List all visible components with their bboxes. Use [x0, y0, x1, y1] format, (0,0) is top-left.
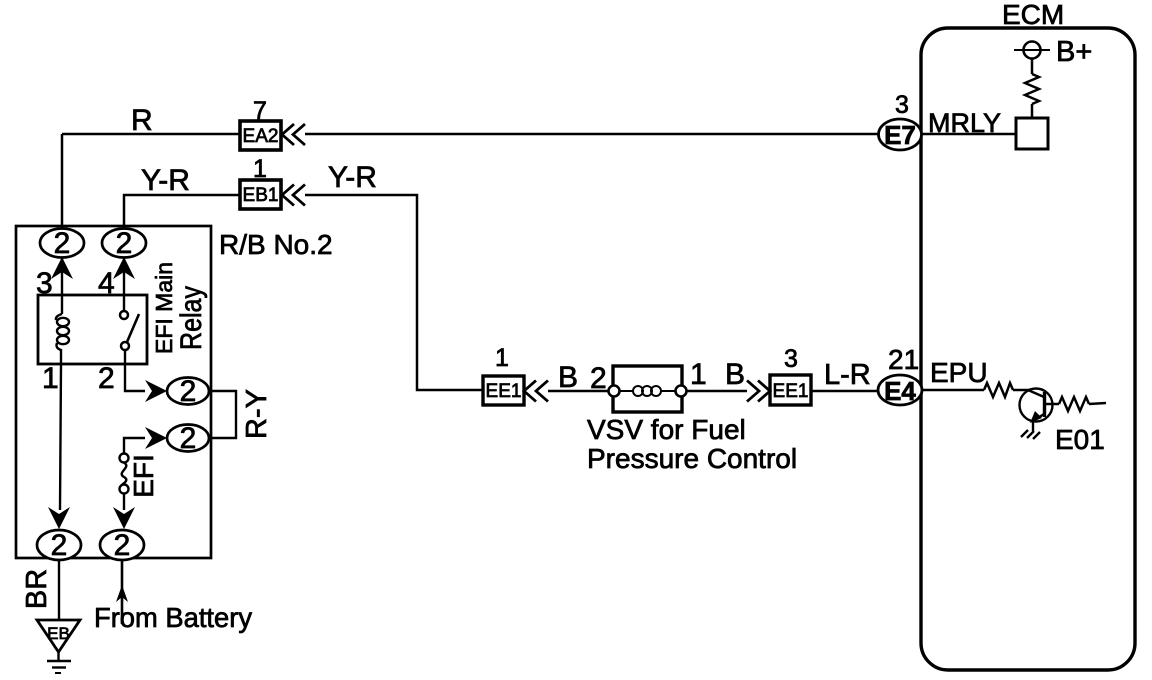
connector pin 4 top (2) [102, 227, 146, 260]
svg-text:2: 2 [590, 362, 607, 395]
ECM box U1 [921, 28, 1135, 670]
connector EE1 pin 3 right [770, 375, 811, 405]
wire coil down [60, 364, 61, 510]
svg-text:Pressure Control: Pressure Control [587, 443, 797, 474]
svg-text:R/B No.2: R/B No.2 [219, 229, 333, 260]
svg-text:E7: E7 [884, 120, 916, 150]
B+ terminal [1014, 42, 1050, 59]
wire R to E7 [305, 133, 879, 136]
relay/fuse block R/B No.2 [16, 226, 211, 558]
wire resistor to coil box [1031, 104, 1034, 118]
svg-text:1: 1 [42, 362, 59, 395]
svg-text:3: 3 [784, 345, 798, 373]
wire to transistor [1013, 389, 1029, 392]
solenoid valve VSV [609, 366, 687, 412]
svg-text:1: 1 [253, 155, 267, 183]
wire B+ to resistor [1031, 59, 1034, 74]
arrow chevrons EE1 left [524, 381, 548, 402]
svg-text:L-R: L-R [824, 359, 871, 391]
connector E bottom (2) [100, 529, 144, 562]
arrow chevrons EA2 [282, 124, 305, 145]
arrow right into A [145, 380, 167, 402]
svg-text:BR: BR [21, 569, 53, 609]
relay coil [56, 295, 69, 364]
resistor R3 [1059, 397, 1089, 411]
wire R left [62, 133, 240, 136]
wire EPU [921, 389, 984, 391]
svg-text:EA2: EA2 [243, 126, 279, 147]
arrow up pin4 [113, 257, 135, 279]
svg-text:EFI Main: EFI Main [151, 262, 177, 354]
fuse EFI [120, 454, 129, 494]
connector EE1 pin 1 left [483, 376, 524, 405]
wire R vertical [61, 134, 64, 229]
connector E4 pin 21 [878, 375, 922, 406]
svg-text:B: B [558, 361, 578, 394]
svg-text:2: 2 [180, 375, 197, 408]
wire B to VSV [548, 390, 609, 392]
svg-text:R-Y: R-Y [241, 389, 273, 439]
wire MRLY [921, 133, 1016, 136]
connector pin 3 top (2) [40, 227, 84, 260]
wire stub [1089, 403, 1106, 404]
connector EB1 pin 1 [240, 180, 281, 209]
resistor R2 [984, 383, 1013, 397]
wire base to resistor [1045, 403, 1059, 406]
wire B to fuse [124, 438, 145, 453]
svg-text:2: 2 [180, 422, 197, 455]
connector B (2) [167, 422, 209, 455]
wire R-Y loop [209, 391, 236, 438]
connector D bottom (2) [37, 529, 81, 562]
svg-text:Relay: Relay [175, 286, 208, 350]
svg-text:2: 2 [116, 227, 133, 260]
wire BR to ground [58, 560, 60, 620]
arrow chevrons EE1 right [747, 381, 770, 402]
svg-text:EE1: EE1 [773, 381, 809, 402]
svg-text:EE1: EE1 [486, 381, 522, 402]
svg-text:EPU: EPU [930, 357, 988, 388]
arrow down into E [113, 507, 135, 529]
svg-text:2: 2 [98, 362, 115, 395]
svg-text:EB: EB [47, 624, 70, 643]
svg-text:EB1: EB1 [243, 185, 279, 206]
connector EA2 pin 7 [240, 121, 281, 150]
transistor Q1 [1020, 389, 1053, 432]
wire fuse down [123, 493, 125, 510]
svg-text:2: 2 [51, 529, 68, 562]
arrow chevrons EB1 [282, 185, 305, 206]
wire pin4 to switch [123, 257, 125, 295]
arrow down into D [48, 507, 70, 529]
arrow up battery [116, 585, 128, 602]
svg-text:Y-R: Y-R [328, 161, 377, 194]
arrow right into B [145, 427, 167, 449]
wire Y-R to EE1 [305, 195, 483, 390]
svg-text:7: 7 [253, 97, 267, 125]
wire relay pin2 to connector A [125, 364, 145, 391]
wire Y-R vertical to pin4 [124, 195, 240, 229]
svg-text:E4: E4 [884, 376, 916, 406]
svg-text:1: 1 [690, 358, 707, 391]
connector A (2) [167, 375, 209, 408]
svg-text:From Battery: From Battery [94, 602, 252, 633]
resistor R1 [1025, 74, 1039, 104]
svg-text:Y-R: Y-R [141, 164, 190, 197]
wire L-R [811, 390, 879, 392]
arrow up pin3 [51, 257, 73, 279]
svg-text:R: R [131, 104, 153, 137]
svg-text:3: 3 [895, 91, 909, 119]
ground EB [37, 620, 80, 673]
svg-text:ECM: ECM [1002, 0, 1064, 30]
svg-text:1: 1 [495, 344, 509, 372]
relay driver box [1016, 118, 1048, 149]
svg-text:2: 2 [54, 227, 71, 260]
svg-text:B: B [725, 358, 745, 391]
svg-text:EFI: EFI [128, 454, 159, 498]
svg-text:21: 21 [888, 344, 919, 375]
connector E7 pin 3 [879, 119, 922, 150]
wire from battery [121, 560, 124, 624]
svg-text:VSV for Fuel: VSV for Fuel [587, 414, 746, 445]
relay switch [120, 295, 139, 364]
relay K1 EFI Main Relay box [38, 295, 147, 364]
svg-text:2: 2 [114, 529, 131, 562]
svg-text:E01: E01 [1055, 424, 1105, 455]
wire pin3 to coil [61, 257, 63, 295]
wire VSV to EE1 right [687, 390, 747, 392]
svg-text:B+: B+ [1056, 36, 1092, 68]
ground E01 slashes [1021, 430, 1040, 439]
